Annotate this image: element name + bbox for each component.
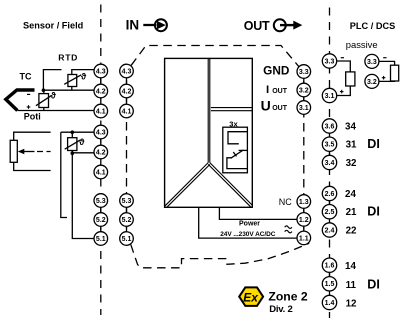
minus sign bbox=[341, 57, 344, 59]
terminal 5.3 bbox=[94, 194, 108, 208]
wire to terminal 4.2 (poti group) bbox=[72, 152, 94, 154]
minus sign bbox=[383, 57, 386, 59]
device dashed border top bbox=[131, 46, 299, 67]
device terminal 4.3 bbox=[120, 64, 134, 78]
device terminal 4.1 bbox=[120, 104, 134, 118]
terminal 4.1 poti bbox=[94, 165, 108, 179]
svg-text:22: 22 bbox=[346, 225, 357, 236]
svg-text:2.5: 2.5 bbox=[325, 209, 335, 216]
AC/DC tilde symbol bbox=[285, 226, 292, 233]
svg-text:4.1: 4.1 bbox=[96, 169, 106, 176]
thermocouple TC symbol bbox=[6, 90, 35, 111]
svg-text:DI: DI bbox=[367, 278, 380, 292]
junction bbox=[71, 151, 75, 155]
device terminal 1.1 bbox=[297, 231, 311, 245]
svg-text:DI: DI bbox=[367, 137, 380, 151]
terminal 4.3 poti bbox=[94, 125, 108, 139]
wire power L to 1.2 bbox=[219, 207, 297, 219]
svg-text:14: 14 bbox=[345, 261, 356, 272]
PLC terminal 3.3 bbox=[322, 54, 336, 68]
svg-text:24: 24 bbox=[345, 189, 356, 200]
svg-text:3.3: 3.3 bbox=[325, 58, 335, 65]
svg-text:12: 12 bbox=[346, 298, 357, 309]
svg-text:OUT: OUT bbox=[244, 19, 270, 33]
svg-text:4.2: 4.2 bbox=[122, 88, 132, 95]
svg-text:passive: passive bbox=[346, 39, 378, 50]
device terminal 3.2 bbox=[297, 83, 311, 97]
configuration switch box bbox=[223, 127, 248, 173]
svg-text:ϑ: ϑ bbox=[51, 91, 57, 101]
svg-text:4.1: 4.1 bbox=[96, 108, 106, 115]
device terminal 1.3 bbox=[297, 195, 311, 209]
svg-text:4.3: 4.3 bbox=[122, 68, 132, 75]
svg-text:Ex: Ex bbox=[243, 290, 259, 304]
potentiometer body bbox=[10, 140, 17, 162]
svg-text:2.4: 2.4 bbox=[325, 227, 335, 234]
terminal 4.2 bbox=[94, 84, 108, 98]
svg-text:1.4: 1.4 bbox=[325, 300, 335, 307]
svg-text:Zone 2: Zone 2 bbox=[268, 290, 307, 304]
TC minus sign bbox=[27, 93, 30, 95]
svg-text:1.5: 1.5 bbox=[325, 281, 335, 288]
PLC terminal 2.6 bbox=[322, 186, 336, 200]
wire poti top stub bbox=[14, 132, 51, 140]
passive terminal 3.2 bbox=[365, 74, 379, 88]
resistor compensation (theta) bbox=[36, 90, 52, 110]
PLC terminal 2.4 bbox=[322, 223, 336, 237]
svg-text:3.1: 3.1 bbox=[299, 105, 309, 112]
svg-text:RTD: RTD bbox=[58, 52, 78, 62]
junction bbox=[42, 88, 46, 92]
device terminal 4.2 bbox=[120, 84, 134, 98]
resistor poti group (theta) bbox=[65, 132, 81, 153]
svg-text:2.6: 2.6 bbox=[325, 191, 335, 198]
svg-text:1.6: 1.6 bbox=[325, 263, 335, 270]
wire to terminal 4.3 bbox=[72, 70, 94, 75]
svg-text:32: 32 bbox=[346, 158, 357, 169]
wire to terminal 4.3 (poti group) bbox=[61, 131, 94, 133]
PLC terminal 2.5 bbox=[322, 205, 336, 219]
svg-text:4.3: 4.3 bbox=[96, 129, 106, 136]
terminal 5.2 bbox=[94, 213, 108, 227]
PLC terminal 1.5 bbox=[322, 277, 336, 291]
plus sign bbox=[382, 76, 386, 80]
PLC terminal 1.6 bbox=[322, 258, 336, 272]
terminal 4.2 poti bbox=[94, 145, 108, 159]
device terminal 3.3 bbox=[297, 65, 311, 79]
device dashed border right bbox=[303, 67, 305, 244]
svg-text:3.2: 3.2 bbox=[299, 87, 309, 94]
svg-text:4.3: 4.3 bbox=[96, 68, 106, 75]
device dashed border bottom bbox=[131, 243, 309, 267]
svg-text:3.6: 3.6 bbox=[325, 123, 335, 130]
wire to terminal 4.2 bbox=[43, 89, 94, 91]
svg-text:5.3: 5.3 bbox=[96, 198, 106, 205]
terminal 5.1 bbox=[94, 232, 108, 246]
PLC terminal 1.4 bbox=[322, 295, 336, 309]
wire ticks between terminals (left inner column) bbox=[126, 78, 128, 233]
PLC terminal 3.1 bbox=[322, 88, 336, 102]
svg-text:GND: GND bbox=[263, 64, 290, 78]
resistor RTD (theta) bbox=[64, 75, 81, 91]
device block body bbox=[165, 58, 253, 207]
svg-text:5.1: 5.1 bbox=[96, 236, 106, 243]
svg-text:5.2: 5.2 bbox=[122, 217, 132, 224]
plus sign bbox=[340, 90, 344, 94]
svg-text:Div. 2: Div. 2 bbox=[269, 304, 292, 315]
TC plus sign bbox=[27, 105, 31, 109]
svg-text:4.2: 4.2 bbox=[96, 88, 106, 95]
IN arrow symbol bbox=[143, 19, 167, 31]
svg-text:3.3: 3.3 bbox=[299, 69, 309, 76]
wire ticks between terminals (right outer column) bbox=[329, 133, 331, 296]
svg-text:4.1: 4.1 bbox=[122, 108, 132, 115]
wire to terminal 5.1 bbox=[72, 153, 94, 238]
passive terminal 3.3 bbox=[365, 54, 379, 68]
terminal 4.1 bbox=[94, 104, 108, 118]
svg-text:3.2: 3.2 bbox=[367, 79, 377, 86]
svg-text:OUT: OUT bbox=[272, 105, 288, 112]
svg-text:NC: NC bbox=[279, 197, 292, 207]
wire to terminal 4.1 bbox=[17, 110, 94, 112]
PLC terminal 3.4 bbox=[322, 155, 336, 169]
wire ticks between terminals (left outer column) bbox=[100, 78, 102, 233]
PLC-side boundary dashed line bbox=[329, 8, 331, 319]
svg-text:Poti: Poti bbox=[24, 112, 41, 122]
wire 4.3 stub (TC bracket) bbox=[43, 70, 61, 91]
svg-text:IN: IN bbox=[126, 18, 140, 33]
poti wiper arrow bbox=[18, 149, 25, 154]
svg-text:I: I bbox=[266, 84, 269, 96]
junction bbox=[71, 130, 75, 134]
svg-text:ϑ: ϑ bbox=[81, 71, 87, 81]
wire ticks between terminals (right inner column) bbox=[303, 78, 305, 231]
svg-text:3.5: 3.5 bbox=[325, 142, 335, 149]
wire bracket to 5.2 bbox=[61, 132, 67, 217]
PLC terminal 3.5 bbox=[322, 137, 336, 151]
wire output example passive bbox=[379, 61, 395, 81]
svg-text:PLC / DCS: PLC / DCS bbox=[350, 21, 395, 31]
svg-text:1.1: 1.1 bbox=[299, 235, 309, 242]
svg-text:TC: TC bbox=[20, 72, 32, 82]
device terminal 5.2 bbox=[120, 213, 134, 227]
device dashed border left bbox=[126, 66, 128, 244]
svg-text:U: U bbox=[261, 97, 271, 113]
wire output example active bbox=[337, 61, 351, 96]
sensor-side boundary dashed line bbox=[100, 5, 102, 316]
resistor load (active) bbox=[346, 72, 355, 86]
svg-text:DI: DI bbox=[367, 204, 380, 218]
svg-text:ϑ: ϑ bbox=[79, 137, 85, 147]
svg-text:3.4: 3.4 bbox=[325, 160, 335, 167]
svg-text:OUT: OUT bbox=[272, 88, 288, 95]
svg-text:24V ...230V AC/DC: 24V ...230V AC/DC bbox=[220, 231, 276, 238]
svg-text:21: 21 bbox=[346, 207, 357, 218]
svg-text:5.2: 5.2 bbox=[96, 217, 106, 224]
device terminal 5.1 bbox=[120, 232, 134, 246]
terminal 4.3 bbox=[94, 64, 108, 78]
svg-text:3.3: 3.3 bbox=[367, 59, 377, 66]
device terminal 3.1 bbox=[297, 101, 311, 115]
wire power N to 1.1 bbox=[199, 207, 297, 238]
device terminal 5.3 bbox=[120, 194, 134, 208]
svg-text:1.2: 1.2 bbox=[299, 217, 309, 224]
svg-text:31: 31 bbox=[346, 140, 357, 151]
svg-text:5.3: 5.3 bbox=[122, 198, 132, 205]
device terminal 1.2 bbox=[297, 213, 311, 227]
Ex hexagon logo bbox=[239, 287, 263, 306]
svg-text:34: 34 bbox=[345, 121, 356, 132]
OUT arrow symbol bbox=[274, 19, 303, 31]
output section divider double line bbox=[211, 108, 252, 111]
svg-text:Sensor / Field: Sensor / Field bbox=[23, 21, 83, 31]
svg-text:Power: Power bbox=[239, 220, 260, 227]
PLC terminal 3.6 bbox=[322, 119, 336, 133]
wire poti bottom stub bbox=[14, 162, 51, 170]
resistor load (passive) bbox=[391, 65, 399, 81]
svg-text:11: 11 bbox=[346, 280, 357, 291]
isolation divider double line bbox=[165, 58, 253, 207]
svg-text:3.1: 3.1 bbox=[325, 93, 335, 100]
svg-text:5.1: 5.1 bbox=[122, 236, 132, 243]
svg-text:4.2: 4.2 bbox=[96, 149, 106, 156]
svg-text:1.3: 1.3 bbox=[299, 199, 309, 206]
